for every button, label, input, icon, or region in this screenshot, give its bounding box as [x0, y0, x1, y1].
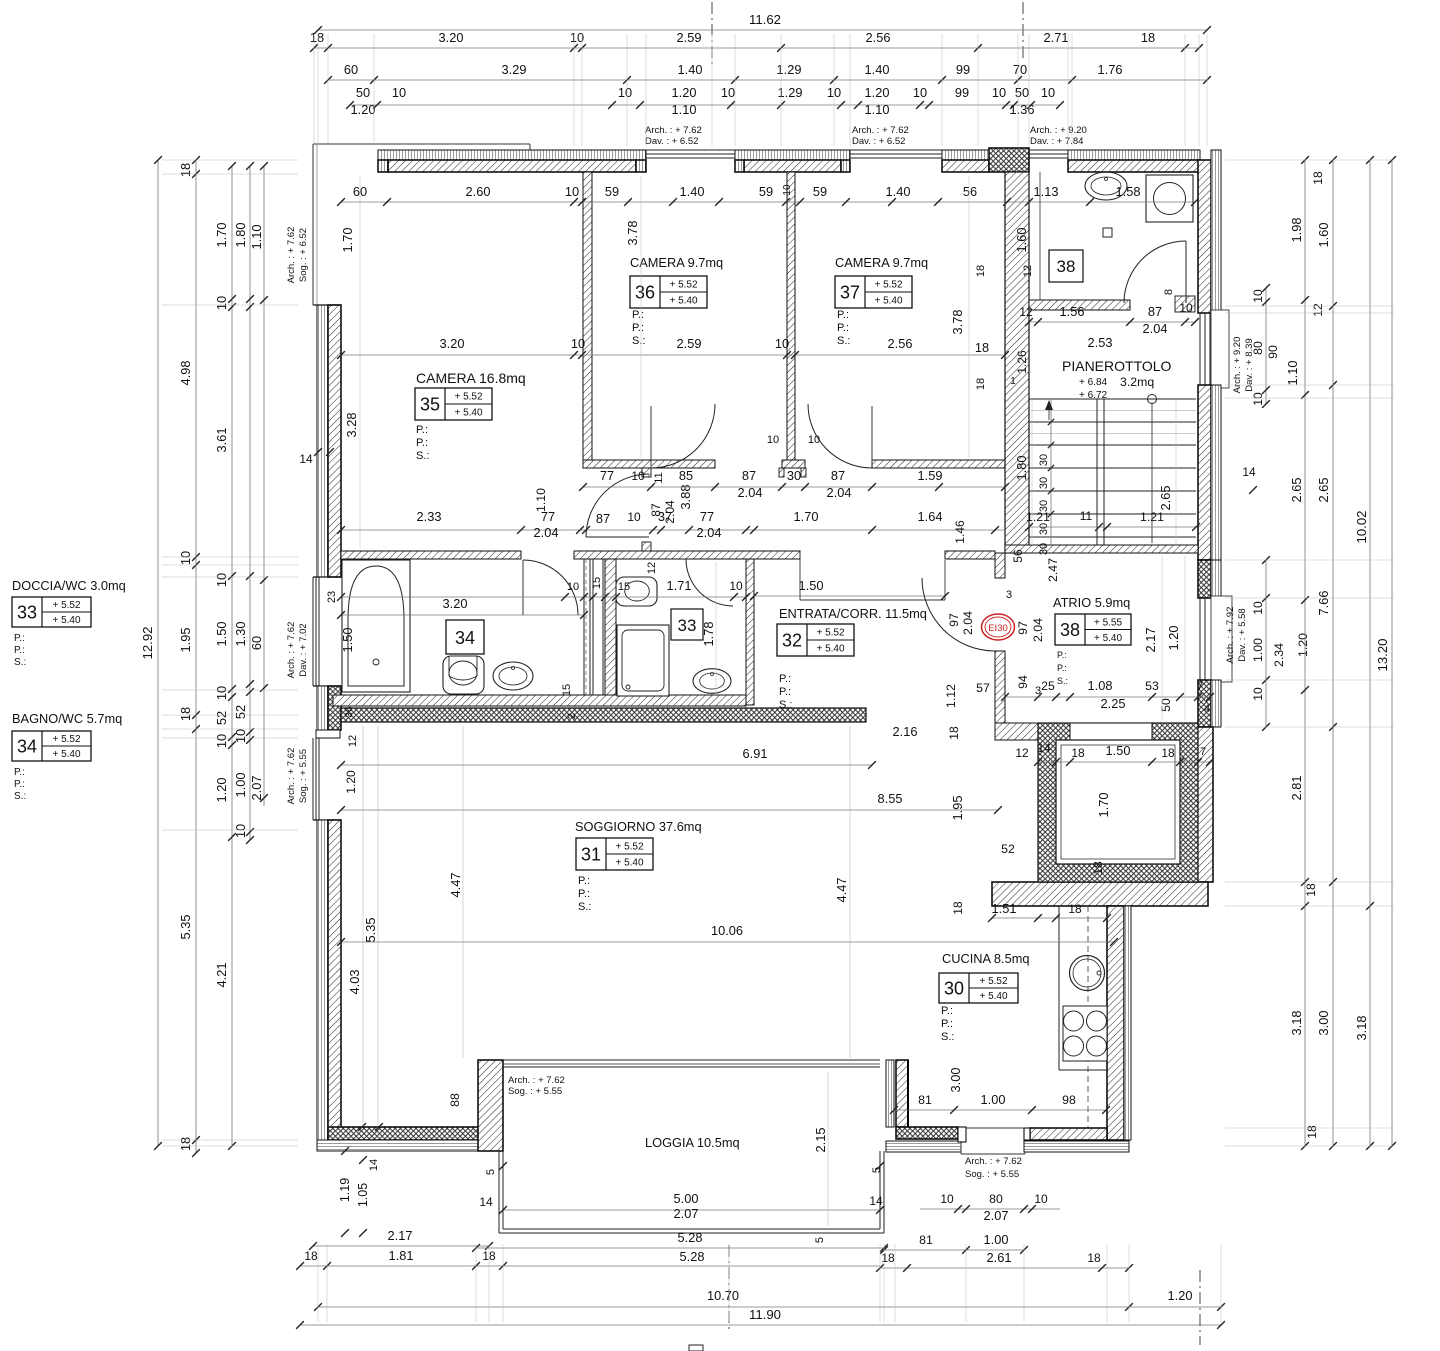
svg-text:14: 14 — [1242, 465, 1256, 479]
svg-text:Dav. : + 5.58: Dav. : + 5.58 — [1237, 608, 1248, 661]
left chain 2 — [195, 160, 197, 1153]
svg-text:P.:: P.: — [1057, 663, 1067, 673]
washing machine bathroom38 — [1146, 175, 1193, 222]
svg-text:87: 87 — [831, 468, 845, 483]
EI30 fire rating mark — [982, 614, 1015, 640]
svg-text:2.59: 2.59 — [677, 30, 702, 45]
svg-text:1.20: 1.20 — [1166, 626, 1181, 651]
loggia left wall — [478, 1060, 503, 1151]
cucina south wall crosshatch piece — [896, 1127, 958, 1139]
right wall beside elevator — [1190, 727, 1213, 882]
door bathroom38 — [1124, 241, 1186, 303]
svg-text:1.50: 1.50 — [340, 628, 355, 653]
small wall box bathroom38 — [1103, 228, 1112, 237]
svg-text:PIANEROTTOLO: PIANEROTTOLO — [1062, 358, 1172, 374]
svg-text:1.26: 1.26 — [1015, 350, 1029, 374]
soggiorno south wall (bottom-left) — [328, 1127, 489, 1140]
svg-text:2.04: 2.04 — [1143, 321, 1168, 336]
svg-text:10: 10 — [940, 1192, 954, 1206]
svg-text:18: 18 — [178, 1137, 193, 1151]
svg-text:3.88: 3.88 — [678, 485, 693, 510]
svg-text:94: 94 — [1016, 675, 1030, 689]
svg-text:1.20: 1.20 — [344, 770, 358, 794]
svg-text:10: 10 — [721, 85, 735, 100]
svg-text:P.:: P.: — [779, 673, 791, 685]
svg-text:4.21: 4.21 — [214, 963, 229, 988]
svg-text:CUCINA 8.5mq: CUCINA 8.5mq — [942, 951, 1029, 966]
svg-text:4.98: 4.98 — [178, 361, 193, 386]
extension lines left dimension block — [162, 159, 298, 161]
svg-text:18: 18 — [1161, 746, 1175, 760]
svg-text:4.47: 4.47 — [834, 878, 849, 903]
svg-text:1.21: 1.21 — [1140, 510, 1164, 524]
svg-text:18: 18 — [304, 1249, 318, 1263]
svg-text:2.04: 2.04 — [663, 500, 677, 524]
svg-text:1.59: 1.59 — [918, 468, 943, 483]
corridor south wall piece A (camera35 south / bagno north) — [341, 551, 521, 559]
bathroom38 south wall — [1029, 300, 1130, 310]
svg-text:18: 18 — [1311, 171, 1325, 185]
svg-text:2: 2 — [566, 713, 578, 719]
apartment entrance door EI30 — [922, 578, 995, 651]
dim row D — [350, 104, 1060, 106]
svg-text:+ 5.52: + 5.52 — [816, 628, 845, 639]
wall cap left — [378, 160, 388, 172]
svg-text:5: 5 — [814, 1237, 826, 1243]
svg-text:1.80: 1.80 — [1014, 456, 1029, 481]
svg-text:15: 15 — [618, 581, 630, 593]
svg-text:1.20: 1.20 — [672, 85, 697, 100]
svg-text:5.00: 5.00 — [674, 1191, 699, 1206]
svg-text:4: 4 — [1204, 703, 1210, 715]
svg-text:18: 18 — [881, 1251, 895, 1265]
svg-text:DOCCIA/WC 3.0mq: DOCCIA/WC 3.0mq — [12, 578, 126, 593]
svg-text:P.:: P.: — [578, 875, 590, 887]
svg-text:6.91: 6.91 — [743, 746, 768, 761]
left chain 5 — [263, 166, 265, 806]
svg-text:10.02: 10.02 — [1354, 510, 1369, 543]
svg-text:14: 14 — [299, 452, 313, 466]
svg-text:7: 7 — [1200, 746, 1206, 758]
svg-text:S.:: S.: — [837, 335, 850, 347]
interior dim stems bagno/doccia — [715, 562, 717, 695]
atrio south pier (crosshatch) — [1052, 723, 1070, 746]
bathroom38 inner wall face line — [1039, 172, 1041, 300]
svg-text:3.28: 3.28 — [344, 413, 359, 438]
svg-text:+ 5.40: + 5.40 — [816, 644, 845, 655]
svg-text:S.:: S.: — [14, 791, 26, 802]
svg-text:BAGNO/WC 5.7mq: BAGNO/WC 5.7mq — [12, 711, 122, 726]
svg-text:18: 18 — [178, 707, 193, 721]
soggiorno south window band to loggia — [503, 1059, 880, 1061]
svg-text:CAMERA 16.8mq: CAMERA 16.8mq — [416, 370, 526, 386]
svg-text:1.76: 1.76 — [1098, 62, 1123, 77]
svg-text:56: 56 — [1011, 549, 1025, 563]
dim row bagno — [341, 596, 746, 598]
svg-text:Arch. : + 7.62: Arch. : + 7.62 — [286, 227, 297, 284]
svg-text:18: 18 — [975, 378, 987, 390]
left window W-L2 — [312, 738, 314, 820]
atrio north wall (stairs bottom) — [1005, 545, 1198, 553]
svg-text:99: 99 — [956, 62, 970, 77]
svg-text:1.60: 1.60 — [1316, 223, 1331, 248]
corridor north wall piece A — [583, 460, 715, 468]
svg-text:S.:: S.: — [779, 699, 792, 711]
kitchen center dashed line — [1087, 906, 1089, 1128]
svg-text:30: 30 — [1038, 523, 1050, 535]
left window W-L1 — [312, 577, 314, 686]
svg-text:31: 31 — [581, 845, 601, 865]
room bagno 34 tag — [446, 620, 484, 654]
svg-text:P.:: P.: — [14, 633, 25, 644]
svg-text:Arch. : + 7.62: Arch. : + 7.62 — [965, 1156, 1022, 1167]
svg-text:1.70: 1.70 — [214, 223, 229, 248]
svg-text:Arch. : + 7.62: Arch. : + 7.62 — [286, 622, 297, 679]
svg-text:52: 52 — [233, 705, 248, 719]
svg-text:3.18: 3.18 — [1354, 1016, 1369, 1041]
svg-text:3.00: 3.00 — [948, 1068, 963, 1093]
svg-text:S.:: S.: — [416, 450, 429, 462]
svg-text:14: 14 — [869, 1194, 883, 1208]
svg-text:1.00: 1.00 — [981, 1092, 1006, 1107]
svg-text:+ 5.52: + 5.52 — [979, 976, 1008, 987]
right chain totals — [1369, 160, 1371, 1146]
svg-text:5: 5 — [485, 1169, 497, 1175]
room bathroom 38 tag — [1049, 250, 1083, 282]
atrio right wall lower piece — [1198, 680, 1211, 727]
svg-text:10: 10 — [1041, 85, 1055, 100]
svg-text:5.28: 5.28 — [678, 1230, 703, 1245]
extension lines bottom dimension block — [317, 1244, 319, 1322]
svg-text:30: 30 — [944, 979, 964, 999]
svg-text:1.00: 1.00 — [1251, 638, 1265, 662]
cucina-loggia door threshold — [966, 1127, 1024, 1129]
window top W3 (stair tower) — [1029, 149, 1068, 151]
svg-text:2.04: 2.04 — [738, 485, 763, 500]
exterior wall top piece 2 (insulation) — [735, 150, 850, 160]
svg-text:1.70: 1.70 — [794, 509, 819, 524]
svg-text:10: 10 — [782, 184, 793, 196]
bottom total rows — [318, 1306, 1129, 1308]
exterior wall top piece 1 (insulation) — [378, 150, 646, 160]
svg-text:11: 11 — [653, 472, 665, 483]
svg-text:+ 5.52: + 5.52 — [52, 600, 81, 611]
svg-text:10: 10 — [767, 434, 779, 446]
svg-text:5.28: 5.28 — [680, 1249, 705, 1264]
svg-text:+ 5.40: + 5.40 — [615, 858, 644, 869]
svg-text:3.29: 3.29 — [502, 62, 527, 77]
svg-text:Arch. : + 7.62: Arch. : + 7.62 — [286, 748, 297, 805]
svg-text:Dav. : + 8.39: Dav. : + 8.39 — [1244, 338, 1255, 391]
svg-text:2.59: 2.59 — [677, 336, 702, 351]
svg-text:10.06: 10.06 — [711, 923, 743, 938]
svg-text:1.05: 1.05 — [356, 1183, 370, 1207]
svg-text:10: 10 — [565, 184, 579, 199]
svg-text:P.:: P.: — [416, 424, 428, 436]
svg-text:2.65: 2.65 — [1316, 478, 1331, 503]
svg-text:11.62: 11.62 — [749, 12, 781, 27]
svg-text:ATRIO 5.9mq: ATRIO 5.9mq — [1053, 595, 1130, 610]
svg-text:81: 81 — [918, 1093, 932, 1107]
cucina south wall masonry piece — [1030, 1128, 1107, 1140]
loggia right wall — [896, 1060, 908, 1127]
svg-text:1.10: 1.10 — [865, 102, 890, 117]
svg-text:3.20: 3.20 — [439, 30, 464, 45]
svg-text:3.20: 3.20 — [443, 596, 468, 611]
svg-text:Arch. : + 7.62: Arch. : + 7.62 — [852, 125, 909, 136]
bottom dim row 5.28 x2 — [476, 1247, 884, 1249]
partition camera36-camera37 — [787, 172, 795, 460]
svg-text:1.71: 1.71 — [667, 578, 692, 593]
svg-text:7.66: 7.66 — [1316, 591, 1331, 616]
svg-text:1.20: 1.20 — [1168, 1288, 1193, 1303]
insulation band bottom-left — [317, 1140, 503, 1151]
svg-text:1.98: 1.98 — [1289, 218, 1304, 243]
svg-text:18: 18 — [975, 265, 987, 277]
svg-text:10: 10 — [214, 573, 229, 587]
right chain A — [1304, 160, 1306, 1146]
svg-text:1.20: 1.20 — [351, 102, 376, 117]
svg-text:37: 37 — [840, 283, 860, 303]
svg-text:2.33: 2.33 — [417, 509, 442, 524]
svg-text:EI30: EI30 — [988, 623, 1008, 634]
svg-text:36: 36 — [635, 283, 655, 303]
interior dim stems atrio — [1161, 556, 1163, 720]
svg-text:2.07: 2.07 — [249, 776, 264, 801]
svg-text:15: 15 — [591, 577, 603, 589]
svg-text:2.07: 2.07 — [984, 1208, 1009, 1223]
svg-text:1.10: 1.10 — [1285, 361, 1300, 386]
svg-text:10: 10 — [1251, 687, 1265, 701]
svg-text:2.25: 2.25 — [1101, 696, 1126, 711]
svg-text:56: 56 — [963, 184, 977, 199]
door camera37 — [808, 404, 872, 468]
svg-text:8.55: 8.55 — [878, 791, 903, 806]
svg-text:85: 85 — [679, 468, 693, 483]
svg-text:10: 10 — [627, 510, 641, 524]
svg-text:1.50: 1.50 — [799, 578, 824, 593]
svg-text:1.50: 1.50 — [214, 622, 229, 647]
svg-text:3: 3 — [1006, 589, 1012, 601]
svg-text:2.17: 2.17 — [388, 1228, 413, 1243]
door jamb stub camera36 — [642, 468, 651, 477]
svg-text:5.35: 5.35 — [363, 918, 378, 943]
stair tower right wall mid — [1198, 385, 1211, 560]
bottom axis dash-dot lines — [728, 1245, 730, 1333]
svg-text:2.04: 2.04 — [534, 525, 559, 540]
interior dim stems camera35 — [359, 176, 361, 548]
svg-text:+ 6.84: + 6.84 — [1079, 377, 1108, 388]
svg-text:3.61: 3.61 — [214, 428, 229, 453]
svg-text:7: 7 — [1197, 679, 1204, 693]
svg-text:59: 59 — [759, 184, 773, 199]
elevator shaft — [1038, 723, 1198, 882]
svg-text:Arch. : + 7.92: Arch. : + 7.92 — [1225, 607, 1236, 664]
extension lines top dimension block — [313, 34, 315, 146]
kitchen stove burners — [1063, 1006, 1107, 1061]
svg-text:70: 70 — [1013, 62, 1027, 77]
svg-text:87: 87 — [649, 503, 663, 517]
svg-text:12: 12 — [646, 562, 658, 574]
window top W2 — [850, 149, 942, 151]
dim row total 11.62 — [318, 29, 1207, 31]
svg-text:2.71: 2.71 — [1044, 30, 1069, 45]
svg-text:30: 30 — [1038, 543, 1050, 555]
svg-text:18: 18 — [178, 163, 193, 177]
svg-text:3.00: 3.00 — [1316, 1011, 1331, 1036]
shower doccia33 — [617, 625, 669, 696]
svg-text:33: 33 — [678, 616, 697, 635]
left pier sill — [316, 730, 340, 738]
svg-text:2.07: 2.07 — [674, 1206, 699, 1221]
left chain total 12.92 — [157, 160, 159, 1146]
dim row atrio bottom — [1005, 696, 1210, 698]
svg-text:2.04: 2.04 — [827, 485, 852, 500]
svg-text:14: 14 — [368, 1159, 380, 1171]
exterior wall top piece 1 (masonry) — [388, 160, 636, 172]
svg-text:2.17: 2.17 — [1143, 628, 1158, 653]
svg-text:12: 12 — [1015, 746, 1029, 760]
svg-text:52: 52 — [1001, 842, 1015, 856]
partition doccia-entrata — [746, 559, 754, 705]
interior dim stems loggia — [827, 1072, 829, 1226]
svg-text:10: 10 — [214, 296, 229, 310]
soggiorno north wall (crosshatch band) — [341, 708, 866, 722]
stair central stringer — [1096, 399, 1098, 545]
svg-text:60: 60 — [249, 636, 264, 650]
svg-text:14: 14 — [1037, 741, 1051, 755]
svg-text:18: 18 — [951, 901, 965, 915]
cucina east wall — [1107, 906, 1124, 1140]
svg-text:1.19: 1.19 — [338, 1178, 352, 1202]
svg-text:81: 81 — [919, 1233, 933, 1247]
svg-text:38: 38 — [1060, 620, 1080, 640]
svg-text:S.:: S.: — [632, 335, 645, 347]
svg-text:1.20: 1.20 — [1296, 633, 1310, 657]
svg-text:1.78: 1.78 — [701, 622, 716, 647]
svg-text:10: 10 — [1251, 392, 1265, 406]
svg-text:2.15: 2.15 — [813, 1128, 828, 1153]
svg-text:1.12: 1.12 — [944, 684, 958, 708]
svg-text:10: 10 — [913, 85, 927, 100]
svg-text:11: 11 — [1080, 509, 1093, 523]
exterior wall top piece 2 (masonry) — [744, 160, 841, 172]
kitchen counter — [1058, 906, 1060, 1070]
svg-text:1.70: 1.70 — [1096, 793, 1111, 818]
svg-text:1.95: 1.95 — [950, 796, 965, 821]
svg-text:30: 30 — [1038, 454, 1050, 466]
atrio right wall upper piece — [1198, 560, 1211, 598]
svg-text:88: 88 — [448, 1093, 462, 1107]
window top W1 — [646, 149, 735, 151]
svg-text:15: 15 — [561, 684, 573, 696]
entrata niche outline — [799, 553, 801, 600]
svg-text:10: 10 — [992, 85, 1006, 100]
corridor south wall piece C — [945, 551, 995, 559]
bottom small square mark — [689, 1345, 703, 1351]
svg-text:2.65: 2.65 — [1289, 478, 1304, 503]
svg-text:8: 8 — [1163, 289, 1175, 295]
svg-text:77: 77 — [700, 509, 714, 524]
stair tread-depth dim chain — [1050, 399, 1052, 545]
bottom dim rows right — [920, 1208, 1060, 1210]
atrio south wall piece west — [995, 723, 1045, 740]
svg-text:13.20: 13.20 — [1375, 638, 1390, 671]
tower right window W4 — [1211, 310, 1229, 388]
door jamb stub above piece B — [642, 542, 651, 551]
sink bathroom38 — [1085, 172, 1127, 200]
svg-text:Sog. : + 5.55: Sog. : + 5.55 — [508, 1086, 562, 1097]
svg-text:10: 10 — [567, 581, 579, 593]
atrio right window W5 with frame — [1211, 596, 1232, 682]
svg-text:Sog. : + 5.55: Sog. : + 5.55 — [965, 1169, 1019, 1180]
svg-text:2.60: 2.60 — [466, 184, 491, 199]
svg-text:+ 5.40: + 5.40 — [52, 615, 81, 626]
svg-text:53: 53 — [1145, 679, 1159, 693]
svg-text:3.20: 3.20 — [440, 336, 465, 351]
svg-text:30: 30 — [787, 468, 801, 483]
svg-text:60: 60 — [344, 62, 358, 77]
sink bagno34 — [493, 662, 533, 690]
svg-text:50: 50 — [356, 85, 370, 100]
wc bagno34 — [443, 656, 484, 694]
svg-text:80: 80 — [989, 1192, 1003, 1206]
svg-text:Sog. : + 6.52: Sog. : + 6.52 — [298, 228, 309, 282]
sink doccia33 — [693, 669, 731, 694]
svg-text:18: 18 — [975, 340, 989, 355]
svg-text:Dav. : + 6.52: Dav. : + 6.52 — [645, 136, 698, 147]
svg-text:P.:: P.: — [1057, 650, 1067, 660]
door bagno34 — [523, 560, 578, 615]
stair tower top wall — [1068, 150, 1200, 160]
svg-text:2.53: 2.53 — [1088, 335, 1113, 350]
svg-text:P.:: P.: — [14, 645, 25, 656]
corridor north wall piece B (between doors) — [782, 460, 805, 468]
svg-text:2.04: 2.04 — [1031, 618, 1045, 642]
door camera35 (swing in corridor) — [586, 536, 649, 538]
svg-text:5.35: 5.35 — [178, 915, 193, 940]
svg-text:2.47: 2.47 — [1046, 558, 1060, 582]
svg-text:Arch. : + 7.62: Arch. : + 7.62 — [508, 1075, 565, 1086]
svg-text:3.78: 3.78 — [625, 221, 640, 246]
svg-text:87: 87 — [596, 511, 610, 526]
bagno-duct wall lines — [583, 559, 585, 697]
door doccia33 — [686, 559, 733, 606]
dim row pianerottolo — [1029, 321, 1195, 323]
svg-text:59: 59 — [605, 184, 619, 199]
svg-text:87: 87 — [742, 468, 756, 483]
corridor north wall piece C — [872, 460, 1005, 468]
svg-text:2.16: 2.16 — [893, 724, 918, 739]
svg-text:+ 6.72: + 6.72 — [1079, 390, 1108, 401]
svg-text:S.:: S.: — [1057, 676, 1068, 686]
svg-text:1.40: 1.40 — [678, 62, 703, 77]
svg-text:18: 18 — [1305, 1125, 1319, 1139]
svg-text:3.2mq: 3.2mq — [1120, 375, 1154, 389]
svg-text:10: 10 — [233, 729, 248, 743]
loggia parapet outline — [498, 1151, 500, 1233]
svg-text:18: 18 — [1304, 883, 1318, 897]
svg-text:10: 10 — [729, 579, 743, 593]
svg-text:P.:: P.: — [941, 1005, 953, 1017]
svg-text:1.70: 1.70 — [340, 228, 355, 253]
svg-text:P.:: P.: — [632, 322, 644, 334]
svg-text:14: 14 — [479, 1195, 493, 1209]
dim row below atrio (elevator top) — [1038, 761, 1210, 763]
svg-text:12.92: 12.92 — [140, 626, 155, 659]
left pier between windows (crosshatch) — [328, 686, 341, 730]
svg-text:10: 10 — [775, 336, 789, 351]
